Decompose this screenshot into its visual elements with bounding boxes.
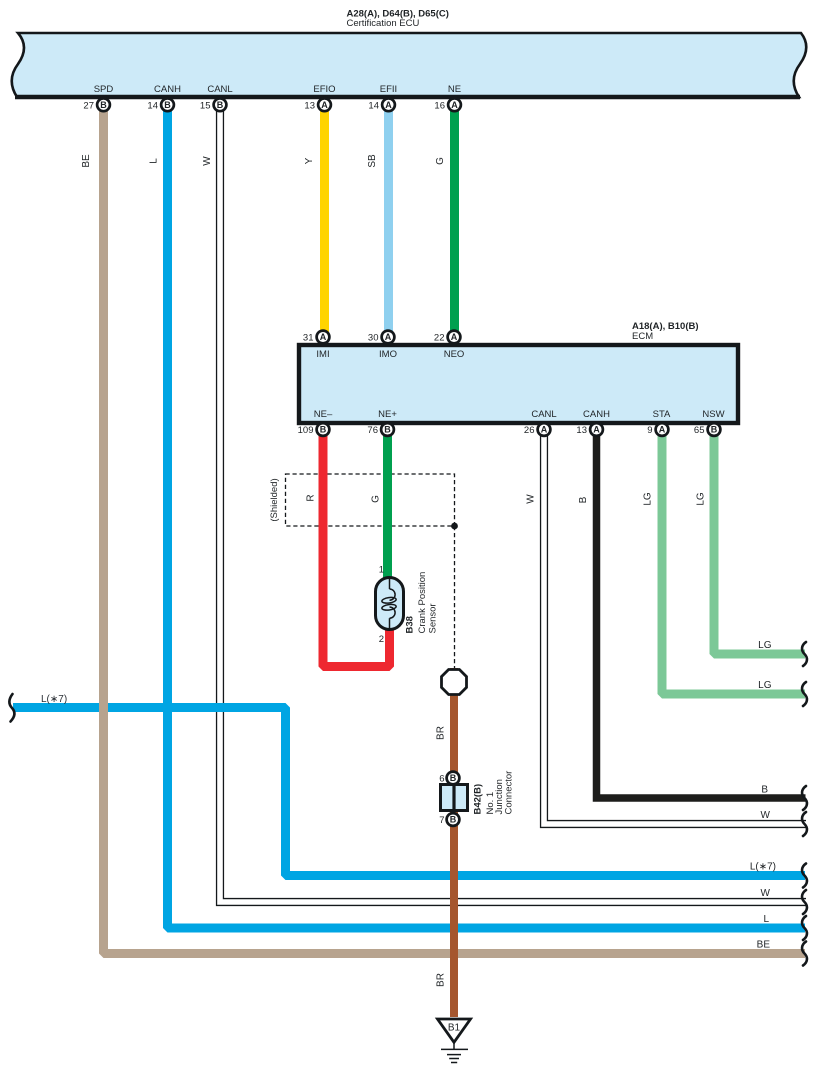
svg-text:Certification ECU: Certification ECU [347, 18, 420, 29]
wire LG (STA) [662, 434, 805, 694]
svg-text:A: A [451, 100, 458, 110]
svg-text:7: 7 [439, 815, 444, 826]
pin circles group [97, 98, 720, 825]
ground B1 triangle [438, 1019, 471, 1042]
svg-text:9: 9 [647, 425, 652, 436]
wire Y (EFIO to IMI) [320, 107, 329, 333]
svg-text:EFII: EFII [380, 84, 397, 95]
svg-text:LG: LG [643, 492, 654, 506]
svg-text:W: W [526, 494, 537, 504]
svg-text:NEO: NEO [444, 349, 465, 360]
wire W (CANL ECM) outline [544, 434, 806, 824]
sensor coil bump top [390, 589, 396, 600]
svg-text:26: 26 [524, 425, 535, 436]
svg-text:B: B [450, 773, 457, 783]
svg-text:G: G [371, 495, 382, 503]
squiggle B [802, 786, 807, 810]
svg-text:CANH: CANH [154, 84, 181, 95]
wire BR (shield to ground B1) [450, 668, 458, 1017]
squiggle L*7 [802, 864, 807, 888]
pin 9(A) STA [656, 423, 669, 436]
pin 65(B) NSW [708, 423, 721, 436]
svg-text:B: B [217, 100, 224, 110]
svg-text:31: 31 [303, 333, 314, 344]
svg-text:STA: STA [653, 409, 671, 420]
svg-text:BR: BR [436, 726, 447, 740]
svg-text:B: B [450, 815, 457, 825]
squiggle L [802, 916, 807, 940]
squiggle LG nsw [802, 642, 807, 666]
svg-text:B38: B38 [405, 616, 416, 633]
svg-text:A: A [451, 332, 458, 342]
squiggle BE [802, 942, 807, 966]
svg-text:1: 1 [379, 565, 384, 576]
svg-text:22: 22 [434, 333, 445, 344]
svg-text:A: A [659, 425, 666, 435]
svg-text:B: B [164, 100, 171, 110]
svg-text:B42(B): B42(B) [473, 784, 484, 815]
squiggle L*7 left [9, 694, 14, 722]
pin 109(B) NE- [317, 423, 330, 436]
svg-text:IMI: IMI [316, 349, 329, 360]
svg-text:NSW: NSW [702, 409, 724, 420]
ground bar 1 [441, 1048, 468, 1050]
junction connector divider [452, 786, 455, 809]
svg-text:CANL: CANL [531, 409, 556, 420]
svg-text:ECM: ECM [632, 331, 653, 342]
svg-text:CANH: CANH [583, 409, 610, 420]
pin 13(A) CANH [590, 423, 603, 436]
svg-text:2: 2 [379, 634, 384, 645]
wire W (CANL cert) outline [220, 107, 806, 902]
svg-text:SB: SB [367, 154, 378, 168]
ECM box [299, 345, 738, 423]
squiggle W cert [802, 890, 807, 914]
svg-text:B: B [320, 425, 327, 435]
svg-text:(Shielded): (Shielded) [269, 478, 280, 521]
wire W (CANL ECM) core [544, 433, 807, 824]
svg-text:16: 16 [434, 100, 445, 111]
pin 15(B) CANL [214, 98, 227, 111]
svg-text:L(∗7): L(∗7) [41, 694, 67, 705]
pin 13(A) EFIO [318, 98, 331, 111]
ground bar 2 [447, 1054, 461, 1056]
svg-text:B1: B1 [448, 1023, 461, 1034]
pin 30(A) IMO [382, 331, 395, 344]
wire G (NE+ to sensor pin 1) [383, 434, 392, 578]
sensor coil lead top [389, 578, 391, 589]
shield dashed box [286, 474, 455, 526]
wire BE (SPD) [104, 107, 806, 954]
svg-text:SPD: SPD [94, 84, 114, 95]
svg-text:Y: Y [304, 157, 315, 164]
svg-text:BR: BR [436, 973, 447, 987]
crank position sensor B38 body [376, 578, 404, 630]
pin 26(A) CANL [538, 423, 551, 436]
svg-text:B: B [761, 785, 768, 796]
junction connector name labels [473, 771, 515, 815]
pin 16(A) NE [448, 98, 461, 111]
svg-text:B: B [100, 100, 107, 110]
svg-text:6: 6 [439, 774, 444, 785]
pin 6(B) B42 [447, 772, 460, 785]
svg-text:Connector: Connector [504, 771, 515, 815]
svg-text:G: G [435, 157, 446, 165]
svg-text:W: W [761, 810, 771, 821]
squiggle LG sta [802, 682, 807, 706]
svg-text:LG: LG [758, 680, 772, 691]
squiggle W ecm [802, 812, 807, 836]
shield octagon [442, 670, 467, 695]
svg-text:14: 14 [147, 100, 158, 111]
pin 31(A) IMI [317, 331, 330, 344]
svg-text:LG: LG [696, 492, 707, 506]
svg-text:L: L [149, 158, 160, 164]
svg-text:B: B [384, 425, 391, 435]
svg-text:Sensor: Sensor [427, 603, 438, 633]
svg-text:L(∗7): L(∗7) [750, 862, 776, 873]
svg-text:W: W [761, 888, 771, 899]
svg-text:CANL: CANL [207, 84, 232, 95]
svg-text:A: A [321, 100, 328, 110]
pin numbers group [83, 100, 704, 826]
svg-text:LG: LG [758, 640, 772, 651]
svg-text:A: A [593, 425, 600, 435]
pin 27(B) SPD [97, 98, 110, 111]
sensor name labels [405, 572, 439, 634]
pin 14(B) CANH [161, 98, 174, 111]
ground bar 3 [449, 1058, 459, 1060]
sensor coil lead bottom [389, 618, 391, 629]
svg-text:A: A [320, 332, 327, 342]
svg-text:NE–: NE– [314, 409, 333, 420]
right edge wire labels [750, 640, 776, 951]
svg-text:A: A [385, 332, 392, 342]
ground bar 4 [451, 1062, 457, 1064]
wire LG (NSW) [714, 434, 805, 654]
svg-text:30: 30 [368, 333, 379, 344]
svg-text:A: A [541, 425, 548, 435]
svg-text:109: 109 [298, 425, 314, 436]
certification ECU band [12, 33, 807, 97]
svg-text:B: B [711, 425, 718, 435]
svg-text:NE+: NE+ [378, 409, 397, 420]
svg-text:B: B [578, 496, 589, 503]
wire G (NE to NEO) [450, 107, 459, 333]
ground stub [453, 1042, 455, 1049]
wire B (CANH ECM) [597, 434, 806, 798]
svg-text:EFIO: EFIO [313, 84, 335, 95]
svg-text:IMO: IMO [379, 349, 397, 360]
svg-text:13: 13 [576, 425, 587, 436]
pin letters group [100, 100, 718, 825]
continuation squiggles right edge [9, 642, 807, 966]
svg-text:NE: NE [448, 84, 461, 95]
pin 7(B) B42 [447, 813, 460, 826]
pin 76(B) NE+ [381, 423, 394, 436]
svg-text:BE: BE [81, 154, 92, 168]
svg-text:R: R [306, 494, 317, 501]
wire R (NE- to sensor pin 2) [323, 434, 390, 667]
svg-text:13: 13 [304, 100, 315, 111]
vertical wire labels [81, 154, 707, 987]
svg-text:A: A [385, 100, 392, 110]
svg-text:15: 15 [200, 100, 211, 111]
wire W (CANL cert) core [220, 106, 807, 902]
wire SB (EFII to IMO) [384, 107, 393, 333]
svg-text:BE: BE [757, 940, 771, 951]
svg-text:65: 65 [694, 425, 705, 436]
svg-text:76: 76 [367, 425, 378, 436]
certification ECU band bottom edge [15, 95, 800, 99]
pin 14(A) EFII [382, 98, 395, 111]
shield drain dashed wire [454, 526, 456, 668]
svg-text:W: W [202, 156, 213, 166]
svg-text:27: 27 [83, 100, 94, 111]
shield junction dot [451, 523, 458, 530]
sensor coil bump bottom [390, 607, 396, 618]
wire L(*7) [13, 708, 805, 876]
junction connector B42 box [441, 785, 468, 811]
wire L (CANH) [168, 107, 806, 928]
svg-text:14: 14 [368, 100, 379, 111]
pin 22(A) NEO [448, 331, 461, 344]
sensor coil loop 1 [381, 597, 396, 604]
svg-text:L: L [763, 914, 769, 925]
sensor coil loop 2 [381, 604, 396, 611]
